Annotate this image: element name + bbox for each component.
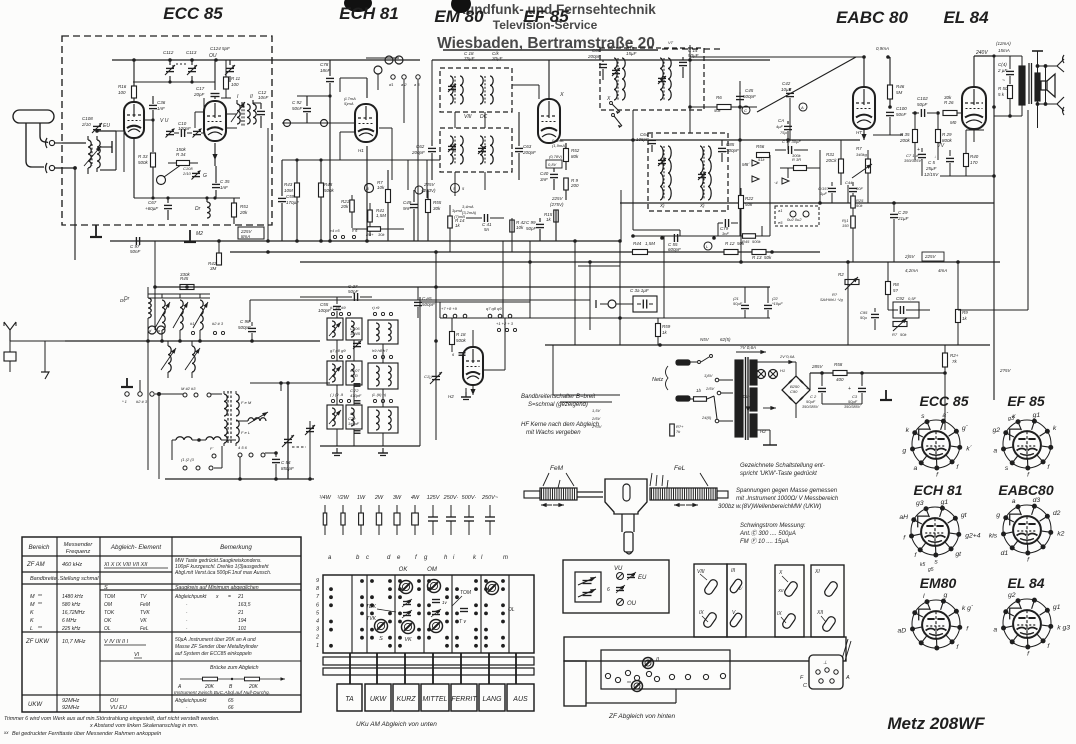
table header Bereich — [29, 544, 51, 551]
switch matrix divider x481 — [480, 575, 482, 653]
capacitor C10 100pF — [174, 121, 192, 137]
svg-text:3W: 3W — [393, 495, 402, 501]
wire x553 power lead — [553, 345, 604, 402]
svg-text:K: K — [30, 618, 34, 624]
MW secondary coil — [224, 391, 239, 446]
antenna jack bottom — [46, 163, 77, 173]
svg-text:F e L: F e L — [241, 430, 250, 435]
coupling coil L1 — [88, 136, 100, 174]
svg-text:500k: 500k — [138, 160, 149, 165]
svg-text:1k: 1k — [962, 316, 968, 321]
pot wiper circle — [157, 162, 186, 185]
wire bus y60 right — [549, 59, 770, 61]
row ZF UKW — [25, 639, 146, 645]
wire x155 drop — [154, 241, 156, 330]
svg-text:a: a — [993, 448, 997, 455]
svg-text:M: M — [30, 602, 35, 608]
label VT VT — [628, 40, 674, 45]
wire x832 drop — [831, 182, 833, 203]
svg-text:g7 g8 g9: g7 g8 g9 — [330, 348, 346, 353]
ground EM80 — [461, 388, 471, 400]
contact row r5 — [330, 392, 351, 403]
svg-text:2/10: 2/10 — [182, 171, 192, 176]
mw extra wires — [250, 381, 330, 465]
tube V5 EL84 — [962, 87, 986, 129]
capacitor C29 21uF — [890, 203, 909, 262]
svg-text:R 34: R 34 — [176, 152, 186, 157]
matrix cap sym1 — [402, 599, 412, 607]
svg-text:62(5): 62(5) — [720, 337, 731, 342]
wire x848 drop — [847, 262, 849, 345]
wire drop x268 — [267, 128, 269, 241]
svg-text:Masse ZF Sender über Metallzyl: Masse ZF Sender über Metallzylinder — [175, 644, 258, 650]
svg-text:Instrument zwisch.BuC.Abgl.auf: Instrument zwisch.BuC.Abgl.auf Null-Durc… — [174, 690, 270, 696]
svg-text:↓: ↓ — [934, 154, 936, 159]
svg-text:50k: 50k — [900, 332, 907, 337]
IF can C — [775, 565, 804, 637]
capacitor C67 60uF — [145, 196, 172, 220]
coil in box d — [698, 146, 711, 200]
wire y92 stub — [297, 94, 332, 97]
wire x868 drop — [867, 182, 869, 203]
svg-text:XII: XII — [777, 588, 784, 593]
svg-text:g3: g3 — [1008, 416, 1015, 422]
svg-text:C92: C92 — [896, 296, 905, 301]
wire mains entry — [604, 395, 620, 402]
svg-text:200pF: 200pF — [411, 150, 425, 155]
wire x530 seg — [529, 241, 531, 262]
footnote 1 — [4, 716, 220, 722]
svg-text:330k: 330k — [180, 272, 191, 277]
contact row osc — [190, 321, 225, 335]
svg-text:MITTEL: MITTEL — [423, 696, 448, 703]
legend resistor 1W — [357, 495, 366, 535]
label 285V — [811, 364, 824, 369]
wire taps to primary — [719, 380, 733, 421]
svg-text:(273V): (273V) — [422, 188, 436, 193]
svg-text:a 2: a 2 — [401, 82, 407, 87]
svg-text:66: 66 — [228, 705, 234, 711]
wire inner bus y198 — [134, 196, 240, 199]
svg-text:FeL: FeL — [140, 626, 149, 632]
bus y262 left ext — [300, 261, 545, 263]
mech slot — [623, 484, 630, 501]
output transformer secondary — [1032, 51, 1043, 128]
svg-text:24(0): 24(0) — [701, 415, 712, 420]
svg-text:III: III — [731, 568, 736, 574]
pinout title EABC80 — [998, 482, 1053, 498]
svg-text:163,5: 163,5 — [238, 602, 251, 608]
svg-text:k2: k2 — [1057, 530, 1064, 537]
ferrite rod coils — [172, 437, 236, 442]
resistor R44 15M — [633, 241, 656, 255]
svg-text:2/5V: 2/5V — [591, 416, 601, 421]
svg-text:R6: R6 — [716, 95, 722, 100]
svg-text:Trimmer 6 wird vom Werk aus au: Trimmer 6 wird vom Werk aus auf min.Stör… — [4, 716, 220, 722]
svg-text:OK: OK — [104, 618, 112, 624]
svg-text:10k: 10k — [377, 185, 385, 190]
wire bus y60 mid — [238, 59, 420, 61]
resistor R33 500k — [138, 153, 156, 198]
label H2 — [760, 429, 766, 434]
svg-text:R 33: R 33 — [138, 154, 148, 159]
svg-text:200pF: 200pF — [725, 148, 739, 153]
wire V1a anode to C36 — [144, 118, 155, 121]
svg-text:600pF: 600pF — [668, 247, 681, 252]
label 50uA S — [415, 186, 429, 194]
FeM arrow — [541, 503, 564, 507]
wire x633 drop — [632, 110, 634, 230]
svg-text:Abgl.mit Verst.üca 500pF.1nuf: Abgl.mit Verst.üca 500pF.1nuf max Aussch… — [174, 570, 271, 576]
svg-text:350/385V: 350/385V — [802, 405, 819, 409]
mains plug pin bottom — [676, 396, 690, 401]
connector arrows M8 — [742, 160, 759, 182]
bus y479 mw — [165, 477, 314, 481]
svg-text:2/5V: 2/5V — [705, 386, 715, 391]
label HT — [856, 130, 863, 135]
svg-text:g2: g2 — [993, 427, 1001, 434]
button KURZ — [393, 684, 419, 711]
bus y287 right — [770, 286, 870, 288]
svg-text:285V: 285V — [811, 364, 824, 369]
svg-text:H1: H1 — [780, 368, 785, 373]
svg-text:R 12: R 12 — [725, 241, 735, 246]
svg-text:VIII: VIII — [697, 569, 705, 575]
svg-text:4µF: 4µF — [776, 124, 784, 129]
svg-text:VIII: VIII — [464, 114, 472, 120]
svg-text:50pF: 50pF — [348, 289, 359, 294]
capacitor C41 5n — [466, 214, 504, 232]
capacitor C55 100pF — [318, 297, 341, 318]
row Bruecke — [210, 665, 259, 671]
svg-text:400: 400 — [836, 377, 844, 382]
resistor R7 vertical — [386, 170, 391, 241]
coil box A1 — [327, 318, 343, 340]
legend capacitor 125V — [427, 495, 441, 535]
svg-text:C 17 30µF: C 17 30µF — [782, 139, 801, 144]
svg-text:mit Wachs vergeben: mit Wachs vergeben — [526, 430, 581, 436]
wire x621 drop — [620, 190, 622, 241]
svg-text:ECC 85: ECC 85 — [163, 4, 223, 23]
svg-text:C36: C36 — [157, 100, 166, 105]
svg-text:M2: M2 — [196, 231, 203, 237]
coil pack VI — [480, 76, 493, 104]
socket box — [4, 352, 16, 372]
svg-text:500pF: 500pF — [743, 94, 756, 99]
label FeM — [543, 465, 574, 486]
svg-text:C1)): C1)) — [424, 374, 432, 379]
svg-text:2/10: 2/10 — [81, 122, 91, 127]
svg-text:a: a — [993, 627, 997, 634]
wire box to EF85 — [512, 85, 539, 99]
svg-text:C17: C17 — [196, 86, 205, 91]
resistor R48 500k — [319, 160, 335, 241]
resistor R45b 500k — [742, 234, 762, 244]
row K2 — [30, 618, 247, 624]
svg-text:TOK: TOK — [104, 610, 115, 616]
svg-text:?V 0,6A: ?V 0,6A — [740, 345, 756, 350]
svg-text:50pF: 50pF — [526, 226, 537, 231]
FeM ticks — [558, 480, 560, 488]
svg-text:1nF: 1nF — [220, 185, 228, 190]
svg-text:a: a — [913, 465, 917, 472]
svg-text:UKW: UKW — [370, 696, 388, 703]
resistor R55 30k — [426, 190, 442, 241]
svg-text:C102: C102 — [917, 96, 928, 101]
stamp line3 Wiesbaden Bertramstrasse 20 — [437, 35, 655, 52]
button AUS — [507, 684, 534, 711]
wire y310 right — [958, 309, 1028, 311]
tube V1b ECC85 — [204, 101, 226, 141]
svg-text:C 98: C 98 — [240, 319, 250, 324]
svg-text:500k: 500k — [752, 239, 762, 244]
row K1 — [30, 610, 244, 616]
svg-text:VK: VK — [140, 618, 147, 624]
IF dashed box top — [600, 48, 704, 110]
svg-text:(12mA): (12mA) — [996, 41, 1011, 46]
wire x741 b — [740, 236, 742, 262]
resistor R9b 1k — [956, 262, 969, 345]
contact row M — [181, 386, 211, 397]
svg-text:X: X — [606, 96, 611, 102]
wire ech81 pin leads — [340, 78, 392, 180]
resistor R56 51k — [756, 144, 770, 162]
contact row r4 — [372, 348, 393, 359]
svg-text:g2+4: g2+4 — [965, 532, 981, 539]
transformer core lines — [746, 357, 749, 440]
svg-text:30F: 30F — [856, 186, 863, 191]
label Dv — [120, 298, 126, 303]
resistor R54 70k — [352, 227, 404, 237]
switch matrix divider x424 — [423, 575, 425, 653]
svg-text:50nF: 50nF — [292, 106, 303, 111]
svg-text:9nF: 9nF — [403, 206, 411, 211]
footnote 2 — [89, 723, 198, 729]
title EM 80 — [434, 7, 484, 26]
svg-text:g5: g5 — [928, 567, 934, 573]
trimmer C108 2/10 EU — [81, 116, 110, 133]
wire can verticals — [455, 112, 485, 196]
wire EM80 top — [452, 318, 505, 347]
label X switch — [559, 92, 564, 98]
FeL hatched rod — [650, 488, 728, 500]
svg-text:FeM: FeM — [550, 465, 564, 472]
svg-text:350/385V: 350/385V — [904, 158, 921, 163]
svg-text:(1,9mA): (1,9mA) — [552, 143, 567, 148]
svg-text:100pF: 100pF — [178, 126, 191, 131]
pot R31 20k — [825, 140, 844, 185]
trimmer C113 — [186, 50, 197, 82]
svg-text:R56: R56 — [756, 144, 765, 149]
svg-text:200k: 200k — [899, 138, 911, 143]
svg-text:R8: R8 — [893, 282, 899, 287]
pinout ECC85 — [902, 412, 972, 478]
svg-text:FeM: FeM — [140, 602, 151, 608]
tuning gang cap2 — [424, 252, 442, 440]
svg-text:65: 65 — [228, 698, 234, 704]
choke Dr — [195, 196, 210, 218]
label 7V — [938, 143, 945, 149]
label cap eye — [452, 352, 466, 357]
wire x1026 plate — [973, 56, 975, 88]
wire grid row y82 — [133, 81, 215, 83]
ground T mid — [184, 230, 196, 242]
svg-text:EF 85: EF 85 — [1007, 393, 1045, 409]
caption UKu AM — [356, 721, 437, 728]
tube V4 EABC80 — [853, 87, 875, 129]
svg-text:UKu AM Abgleich von unten: UKu AM Abgleich von unten — [356, 721, 437, 728]
table column lines — [57, 537, 172, 712]
svg-text:460 kHz: 460 kHz — [62, 562, 82, 568]
contact row em80 — [496, 321, 517, 332]
electrolytic C2 — [802, 373, 826, 409]
resistor R18 500k — [450, 318, 467, 352]
wire L1 to V1 grid — [95, 129, 124, 170]
switch matrix divider x509 — [508, 575, 510, 653]
svg-text:d1: d1 — [389, 82, 393, 87]
note schwingstrom — [739, 523, 806, 545]
svg-text:C 29: C 29 — [898, 210, 908, 215]
svg-text:ZF Abgleich von hinten: ZF Abgleich von hinten — [608, 713, 676, 720]
svg-text:R55: R55 — [433, 200, 442, 205]
oscillator coil bank — [148, 294, 210, 341]
svg-text:125V: 125V — [427, 495, 441, 501]
svg-text:1)5V: 1)5V — [704, 373, 713, 378]
svg-text:R58: R58 — [834, 362, 843, 367]
circles d p — [148, 326, 165, 334]
svg-text:B: B — [366, 186, 369, 191]
svg-text:C45: C45 — [745, 88, 754, 93]
switch matrix divider x452 — [451, 575, 453, 653]
svg-text:18nF: 18nF — [320, 68, 331, 73]
svg-text:Frequenz: Frequenz — [66, 549, 91, 555]
wire em80 right lead — [505, 262, 530, 318]
wire V2 down — [366, 146, 368, 241]
svg-text:VT: VT — [668, 40, 674, 45]
svg-text:R 29: R 29 — [942, 132, 952, 137]
svg-text:S=schmal (gezeigend): S=schmal (gezeigend) — [528, 402, 588, 408]
row UKW — [28, 698, 234, 711]
svg-text:EABC 80: EABC 80 — [836, 8, 908, 27]
svg-text:a1: a1 — [778, 208, 782, 213]
svg-text:50k: 50k — [856, 203, 863, 208]
svg-text:200pF: 200pF — [587, 54, 601, 59]
svg-text:+7 +8 +9: +7 +8 +9 — [441, 306, 458, 311]
matrix label Tv — [459, 619, 466, 625]
VU label OU — [617, 599, 637, 608]
switch matrix frame — [323, 575, 534, 653]
resistor R45 330k — [180, 272, 194, 290]
svg-text:* 1: * 1 — [122, 399, 127, 404]
wire x848b — [847, 185, 849, 203]
capacitor C102 50pF — [912, 96, 936, 117]
MW transformer core — [228, 391, 231, 445]
svg-text:EU: EU — [638, 575, 647, 581]
wire x575 drop — [574, 241, 576, 300]
resistor R35 200k — [899, 113, 918, 160]
svg-text:C59: C59 — [286, 194, 295, 199]
main bus y240 — [110, 240, 620, 242]
svg-text:R22: R22 — [745, 196, 754, 201]
FeL arrow — [674, 503, 698, 507]
bus y123 rings — [282, 120, 355, 127]
label C15 15uF — [626, 46, 637, 56]
svg-text:R 35: R 35 — [900, 132, 910, 137]
UKW tuner shield box — [62, 36, 272, 225]
svg-text:1k: 1k — [662, 330, 668, 335]
ZF AM remark — [174, 558, 271, 576]
wire x994 down — [993, 56, 995, 400]
circle C node — [742, 106, 750, 114]
wire trimmer drops — [204, 76, 230, 133]
svg-text:R2: R2 — [838, 272, 844, 277]
svg-text:kis: kis — [989, 533, 998, 540]
svg-text:50k: 50k — [745, 202, 753, 207]
svg-text:50pF: 50pF — [917, 102, 928, 107]
fuse Si — [690, 388, 714, 401]
svg-text:aD: aD — [897, 628, 906, 635]
svg-text:SA/HöhU ·Vg: SA/HöhU ·Vg — [820, 298, 844, 302]
mains plug pin top — [676, 360, 690, 365]
svg-text:80k: 80k — [571, 154, 579, 159]
label H2b — [448, 394, 454, 399]
svg-text:C40: C40 — [540, 171, 549, 176]
contact row r1 — [330, 305, 351, 316]
svg-text:V U: V U — [160, 118, 169, 124]
resistor R9 200 — [564, 178, 579, 200]
capacitor C36 1nF — [149, 96, 166, 152]
VU inner box — [575, 572, 601, 602]
svg-text:XI X IX VIII VII XII: XI X IX VIII VII XII — [103, 562, 148, 568]
connector arrow b — [774, 178, 789, 185]
svg-text:M: M — [30, 594, 35, 600]
matrix contact dots — [329, 579, 505, 648]
svg-text:g´: g´ — [962, 425, 969, 432]
svg-text:50k: 50k — [764, 255, 772, 260]
svg-text:350/385V: 350/385V — [844, 405, 861, 409]
contact row t — [181, 446, 222, 470]
wire x820 seg — [819, 150, 821, 203]
svg-text:s: s — [1005, 465, 1009, 472]
resistor R14 1k — [448, 205, 465, 252]
svg-text:R 50: R 50 — [998, 86, 1008, 91]
coil box C2 — [346, 361, 362, 385]
wire bridge sides — [757, 389, 782, 391]
resistor R6 50k — [714, 95, 731, 113]
svg-text:C90: C90 — [790, 389, 798, 394]
svg-text:TOM: TOM — [460, 590, 472, 596]
capacitor C92b 05uF — [888, 296, 930, 318]
matrix screw VK — [402, 621, 415, 644]
matrix rail drops — [350, 653, 516, 684]
svg-text:spricht 'UKW'-Taste gedrückt: spricht 'UKW'-Taste gedrückt — [740, 471, 817, 477]
resistor R24b — [670, 418, 684, 436]
svg-text:A: A — [845, 675, 850, 681]
svg-text:AUS: AUS — [512, 696, 528, 703]
svg-text:*10µF: *10µF — [772, 301, 783, 306]
svg-text:X): X) — [659, 203, 665, 208]
svg-text:T v: T v — [459, 619, 466, 625]
label 225V right — [550, 196, 564, 207]
svg-text:3M: 3M — [210, 266, 217, 271]
svg-text:+: + — [806, 386, 809, 392]
resistor R15 1k — [544, 210, 558, 241]
note schaltstellung — [740, 463, 825, 477]
main bus y287 — [155, 286, 770, 288]
resistor R46 5M — [888, 57, 905, 108]
svg-text:21: 21 — [237, 610, 244, 616]
contact row c4 c5 c6 — [330, 228, 358, 239]
